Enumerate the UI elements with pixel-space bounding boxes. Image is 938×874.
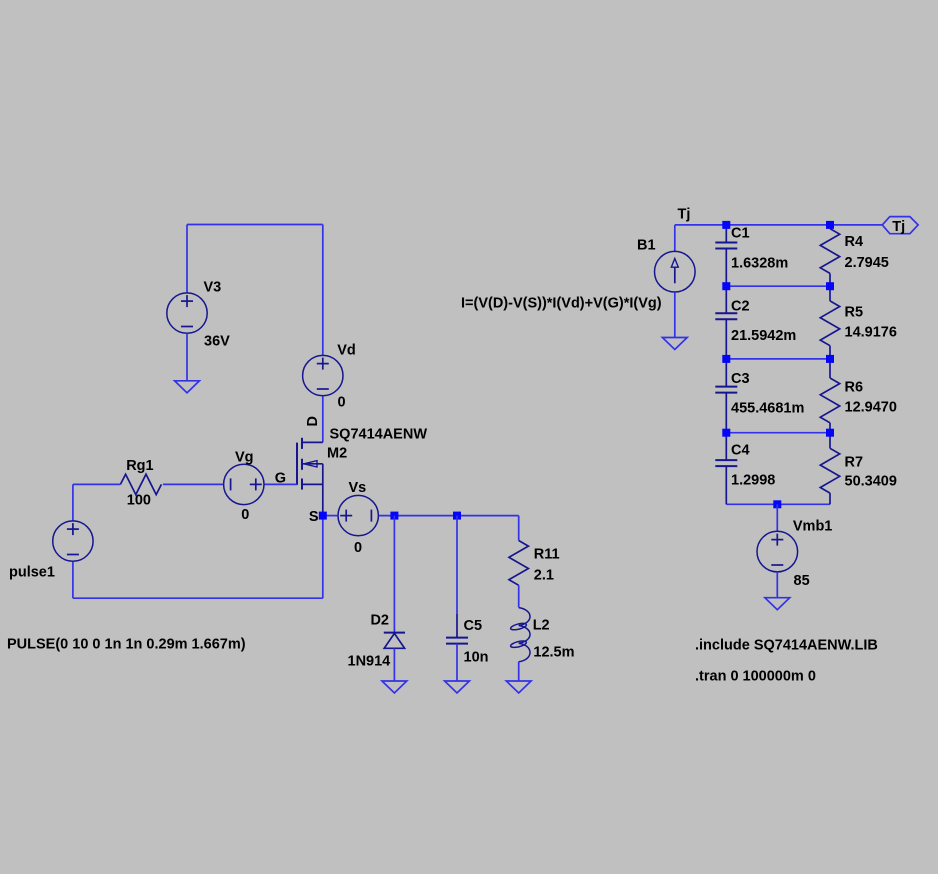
- svg-text:12.9470: 12.9470: [845, 399, 897, 415]
- svg-text:50.3409: 50.3409: [845, 474, 897, 490]
- svg-text:M2: M2: [327, 445, 347, 461]
- svg-text:1.2998: 1.2998: [731, 473, 775, 489]
- svg-text:10n: 10n: [464, 649, 489, 665]
- svg-text:0: 0: [241, 507, 249, 523]
- svg-text:Vd: Vd: [337, 343, 356, 359]
- svg-text:21.5942m: 21.5942m: [731, 328, 796, 344]
- svg-text:L2: L2: [533, 617, 550, 633]
- svg-text:Vmb1: Vmb1: [793, 519, 833, 535]
- svg-text:C1: C1: [731, 226, 750, 242]
- svg-text:R11: R11: [534, 547, 560, 563]
- svg-text:Tj: Tj: [678, 206, 691, 222]
- svg-text:C4: C4: [731, 442, 750, 458]
- svg-text:Vs: Vs: [349, 480, 367, 496]
- svg-text:C5: C5: [464, 618, 483, 634]
- svg-text:100: 100: [127, 493, 151, 509]
- svg-text:B1: B1: [637, 238, 656, 254]
- svg-text:455.4681m: 455.4681m: [731, 401, 804, 417]
- svg-text:12.5m: 12.5m: [533, 644, 574, 660]
- svg-text:R7: R7: [845, 455, 864, 471]
- svg-text:Vg: Vg: [235, 449, 254, 465]
- svg-text:.include SQ7414AENW.LIB: .include SQ7414AENW.LIB: [695, 638, 878, 654]
- svg-text:C3: C3: [731, 371, 750, 387]
- svg-text:R6: R6: [845, 380, 864, 396]
- svg-text:PULSE(0 10 0 1n 1n 0.29m 1.667: PULSE(0 10 0 1n 1n 0.29m 1.667m): [7, 637, 246, 653]
- svg-text:D2: D2: [370, 612, 389, 628]
- svg-text:.tran 0 100000m 0: .tran 0 100000m 0: [695, 669, 816, 685]
- svg-text:85: 85: [794, 573, 810, 589]
- svg-text:S: S: [309, 509, 319, 525]
- svg-text:2.1: 2.1: [534, 567, 554, 583]
- svg-text:pulse1: pulse1: [9, 565, 55, 581]
- svg-text:D: D: [305, 416, 321, 426]
- svg-text:1N914: 1N914: [348, 654, 391, 670]
- svg-text:1.6328m: 1.6328m: [731, 256, 788, 272]
- svg-text:I=(V(D)-V(S))*I(Vd)+V(G)*I(Vg): I=(V(D)-V(S))*I(Vd)+V(G)*I(Vg): [461, 296, 662, 312]
- svg-text:SQ7414AENW: SQ7414AENW: [330, 427, 428, 443]
- svg-text:14.9176: 14.9176: [845, 324, 897, 340]
- svg-text:0: 0: [338, 395, 346, 411]
- svg-text:Rg1: Rg1: [126, 458, 153, 474]
- svg-text:R5: R5: [845, 305, 864, 321]
- svg-text:R4: R4: [845, 234, 864, 250]
- svg-text:V3: V3: [204, 280, 222, 296]
- svg-text:2.7945: 2.7945: [845, 255, 889, 271]
- svg-text:C2: C2: [731, 298, 750, 314]
- svg-text:36V: 36V: [204, 334, 230, 350]
- svg-text:Tj: Tj: [892, 219, 905, 235]
- svg-text:0: 0: [354, 540, 362, 556]
